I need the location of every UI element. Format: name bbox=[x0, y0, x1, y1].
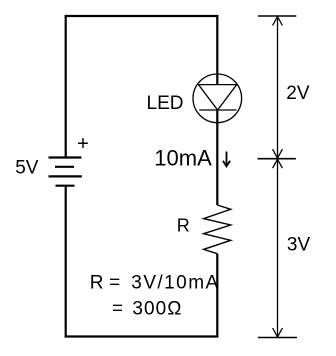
LED D1 bbox=[193, 74, 242, 123]
wire cathode (inside LED) bbox=[216, 110, 218, 123]
wire left lower bbox=[65, 186, 67, 338]
wire right lower bbox=[216, 254, 218, 338]
svg-text:5V: 5V bbox=[15, 158, 39, 179]
wire right upper bbox=[216, 15, 218, 74]
dimension arrow 3V (bottom span) bbox=[273, 159, 283, 338]
svg-text:3V: 3V bbox=[287, 235, 311, 256]
svg-text:R: R bbox=[177, 215, 190, 235]
wire top bbox=[65, 15, 219, 17]
svg-text:=300Ω: =300Ω bbox=[112, 298, 183, 319]
svg-text:LED: LED bbox=[147, 93, 184, 114]
dimension tick top bbox=[258, 15, 296, 17]
dimension arrow 2V (top span) bbox=[273, 16, 283, 159]
resistor R bbox=[204, 205, 231, 254]
battery V1 5V bbox=[49, 158, 82, 186]
wire bottom bbox=[65, 335, 219, 337]
wire right middle bbox=[216, 123, 218, 205]
wire left upper bbox=[65, 15, 67, 158]
wire anode (inside LED) bbox=[216, 74, 218, 85]
current direction arrow bbox=[223, 152, 230, 167]
dimension tick middle bbox=[258, 158, 296, 160]
svg-text:+: + bbox=[77, 133, 89, 155]
svg-text:R=3V/10mA: R=3V/10mA bbox=[90, 273, 220, 294]
svg-text:2V: 2V bbox=[286, 83, 310, 104]
svg-text:10mA: 10mA bbox=[154, 146, 212, 171]
dimension tick bottom bbox=[258, 337, 297, 339]
